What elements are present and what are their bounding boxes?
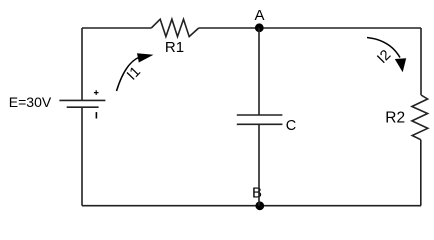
resistor R1 xyxy=(151,19,198,36)
battery E negative plate xyxy=(67,106,99,108)
wire left upper segment xyxy=(81,28,83,100)
wire bottom segment xyxy=(82,205,421,207)
svg-text:B: B xyxy=(252,185,262,202)
wire top-right segment (node A to right corner) xyxy=(259,27,421,29)
wire right lower segment xyxy=(420,140,422,206)
wire top-left segment xyxy=(82,27,151,29)
svg-text:I2: I2 xyxy=(374,47,394,67)
current I2 arrow arc xyxy=(367,38,400,58)
current I2 arrowhead xyxy=(395,58,406,72)
current I1 arrow arc xyxy=(117,58,139,92)
wire top-middle segment (R1 to node A) xyxy=(199,27,259,29)
battery minus tick xyxy=(95,112,97,118)
node B xyxy=(255,201,264,210)
svg-text:R2: R2 xyxy=(385,109,405,126)
wire middle upper segment (node A to capacitor) xyxy=(258,28,260,115)
wire right upper segment xyxy=(420,28,422,95)
node A xyxy=(255,23,264,32)
capacitor C bottom plate xyxy=(237,123,283,125)
wire middle lower segment (capacitor to node B) xyxy=(258,124,260,205)
capacitor C top plate xyxy=(237,114,283,116)
current I1 arrowhead xyxy=(137,53,154,62)
svg-text:C: C xyxy=(286,118,296,134)
svg-text:R1: R1 xyxy=(165,39,184,56)
battery E positive plate xyxy=(59,99,105,101)
svg-text:A: A xyxy=(254,7,264,24)
svg-text:E=30V: E=30V xyxy=(9,94,52,110)
resistor R2 xyxy=(412,95,428,140)
wire left lower segment xyxy=(81,107,83,206)
battery plus sign xyxy=(94,90,99,95)
